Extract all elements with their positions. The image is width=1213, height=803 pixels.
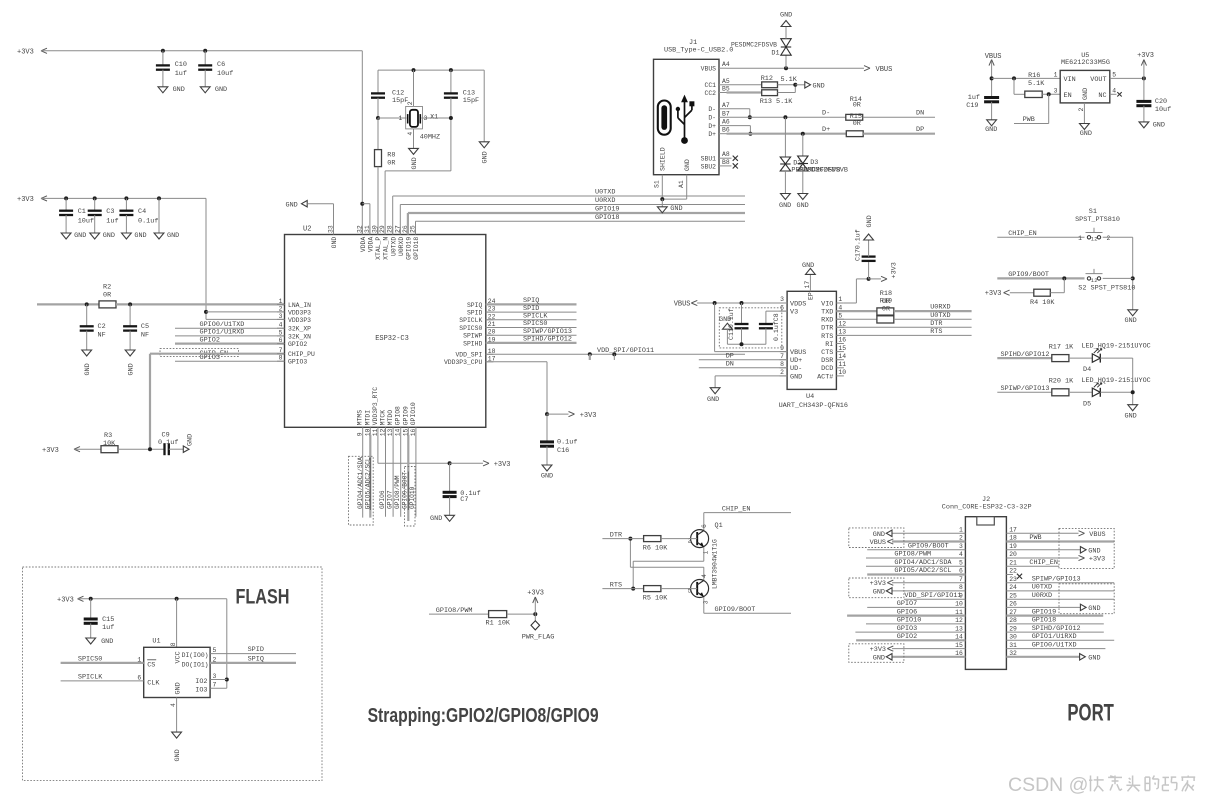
svg-text:SPICLK: SPICLK bbox=[78, 674, 103, 682]
svg-text:32: 32 bbox=[356, 225, 363, 233]
svg-text:+3V3: +3V3 bbox=[57, 597, 74, 605]
svg-text:21: 21 bbox=[1009, 559, 1017, 566]
svg-text:Strapping:GPIO2/GPIO8/GPIO9: Strapping:GPIO2/GPIO8/GPIO9 bbox=[368, 705, 599, 727]
svg-text:GPIO9/BOOT: GPIO9/BOOT bbox=[908, 543, 949, 551]
svg-text:C6: C6 bbox=[217, 61, 225, 69]
svg-text:+3V3: +3V3 bbox=[870, 646, 886, 654]
svg-text:VDD_SPI/GPIO11: VDD_SPI/GPIO11 bbox=[904, 592, 961, 600]
svg-text:U4: U4 bbox=[806, 393, 814, 401]
svg-text:10: 10 bbox=[838, 369, 846, 376]
svg-text:SPIWP/GPIO13: SPIWP/GPIO13 bbox=[1032, 575, 1081, 583]
svg-text:1uf: 1uf bbox=[106, 218, 118, 226]
svg-text:1uf: 1uf bbox=[968, 94, 980, 102]
svg-text:GPIO7: GPIO7 bbox=[386, 490, 393, 509]
svg-text:31: 31 bbox=[364, 225, 371, 233]
svg-text:VBUS: VBUS bbox=[876, 66, 893, 74]
svg-text:VDDA: VDDA bbox=[368, 237, 375, 253]
svg-text:3: 3 bbox=[424, 115, 428, 122]
svg-text:23: 23 bbox=[1009, 576, 1017, 583]
svg-text:C10: C10 bbox=[175, 61, 187, 69]
svg-text:13: 13 bbox=[838, 329, 846, 336]
svg-text:30: 30 bbox=[1009, 634, 1017, 641]
svg-text:+3V3: +3V3 bbox=[870, 580, 886, 588]
svg-text:33: 33 bbox=[328, 225, 335, 233]
svg-text:U2: U2 bbox=[303, 226, 311, 234]
svg-text:CHIP_EN: CHIP_EN bbox=[1029, 559, 1058, 567]
svg-text:Conn_CORE-ESP32-C3-32P: Conn_CORE-ESP32-C3-32P bbox=[942, 504, 1032, 512]
svg-text:+3V3: +3V3 bbox=[17, 196, 34, 204]
svg-text:GPIO9/BOOT: GPIO9/BOOT bbox=[715, 606, 756, 614]
svg-text:SPIHD/GPIO12: SPIHD/GPIO12 bbox=[523, 336, 572, 344]
svg-text:GND: GND bbox=[1088, 605, 1100, 613]
svg-text:20: 20 bbox=[1009, 551, 1017, 558]
svg-text:GND: GND bbox=[780, 12, 792, 20]
svg-text:LNA_IN: LNA_IN bbox=[288, 302, 311, 309]
svg-text:B7: B7 bbox=[722, 110, 730, 117]
svg-text:4: 4 bbox=[1112, 87, 1116, 94]
svg-text:RXD: RXD bbox=[821, 317, 833, 325]
svg-text:17: 17 bbox=[804, 281, 811, 289]
svg-text:GND: GND bbox=[790, 373, 802, 381]
svg-text:NF: NF bbox=[98, 331, 106, 339]
svg-text:GND: GND bbox=[813, 82, 825, 90]
svg-text:0R: 0R bbox=[882, 305, 890, 313]
svg-text:10uf: 10uf bbox=[78, 218, 94, 226]
svg-text:14: 14 bbox=[838, 353, 846, 360]
svg-text:GND: GND bbox=[174, 749, 182, 761]
svg-text:GND: GND bbox=[1082, 88, 1090, 100]
svg-text:15: 15 bbox=[838, 345, 846, 352]
svg-text:GND: GND bbox=[873, 588, 885, 596]
svg-text:25: 25 bbox=[1009, 592, 1017, 599]
svg-text:GND: GND bbox=[873, 531, 885, 539]
svg-text:GND: GND bbox=[1125, 413, 1137, 421]
svg-text:R16: R16 bbox=[1028, 72, 1040, 80]
svg-text:19: 19 bbox=[1009, 543, 1017, 550]
svg-text:R12: R12 bbox=[761, 75, 773, 83]
svg-text:SPIHD/GPIO12: SPIHD/GPIO12 bbox=[1032, 625, 1081, 633]
svg-text:U0TXD: U0TXD bbox=[595, 189, 615, 197]
svg-text:10uf: 10uf bbox=[217, 70, 233, 78]
svg-text:GND: GND bbox=[797, 202, 809, 210]
svg-text:C19: C19 bbox=[966, 102, 978, 110]
svg-text:C2: C2 bbox=[98, 323, 106, 331]
svg-text:C16: C16 bbox=[557, 447, 569, 455]
svg-text:DI(IO0): DI(IO0) bbox=[182, 652, 209, 659]
svg-text:12: 12 bbox=[955, 617, 963, 624]
svg-text:VBUS: VBUS bbox=[674, 301, 691, 309]
svg-text:R5 10K: R5 10K bbox=[643, 594, 668, 602]
svg-text:IO3: IO3 bbox=[195, 687, 207, 695]
svg-text:VDD3P3_RTC: VDD3P3_RTC bbox=[372, 387, 379, 426]
svg-text:SPIQ: SPIQ bbox=[467, 302, 483, 309]
svg-text:UD-: UD- bbox=[790, 365, 802, 373]
svg-text:PWB: PWB bbox=[1023, 116, 1035, 124]
svg-text:GND: GND bbox=[128, 363, 136, 375]
svg-text:5.1K: 5.1K bbox=[1028, 80, 1045, 88]
svg-text:D-: D- bbox=[708, 115, 716, 122]
svg-text:26: 26 bbox=[1009, 601, 1017, 608]
svg-text:7: 7 bbox=[780, 353, 784, 360]
svg-text:20: 20 bbox=[488, 329, 496, 336]
svg-text:GPIO0/U1TXD: GPIO0/U1TXD bbox=[1032, 641, 1077, 649]
svg-text:3: 3 bbox=[959, 543, 963, 550]
svg-text:+3V3: +3V3 bbox=[17, 48, 34, 56]
svg-text:R3: R3 bbox=[104, 432, 112, 440]
svg-text:GPIO1/U1RXD: GPIO1/U1RXD bbox=[1032, 633, 1077, 641]
svg-text:0R: 0R bbox=[853, 102, 861, 110]
svg-text:VBUS: VBUS bbox=[701, 66, 717, 73]
svg-text:+3V3: +3V3 bbox=[42, 447, 59, 455]
svg-text:NC: NC bbox=[1098, 92, 1106, 100]
svg-text:GND: GND bbox=[187, 434, 195, 446]
svg-text:11: 11 bbox=[838, 361, 846, 368]
svg-text:4: 4 bbox=[279, 322, 283, 329]
svg-text:DTR: DTR bbox=[930, 320, 942, 328]
svg-text:GND: GND bbox=[286, 201, 298, 209]
svg-text:GND: GND bbox=[74, 232, 86, 240]
svg-text:4: 4 bbox=[701, 574, 708, 578]
svg-text:EN: EN bbox=[1064, 92, 1072, 100]
svg-text:1: 1 bbox=[137, 656, 141, 663]
svg-text:1: 1 bbox=[279, 298, 283, 305]
svg-text:U0RXD: U0RXD bbox=[1032, 592, 1052, 600]
svg-text:1: 1 bbox=[959, 527, 963, 534]
svg-text:ESP32-C3: ESP32-C3 bbox=[375, 335, 409, 343]
svg-text:R1 10K: R1 10K bbox=[486, 620, 511, 628]
svg-text:GPIO5/ADC2/SCL: GPIO5/ADC2/SCL bbox=[364, 457, 371, 509]
svg-text:23: 23 bbox=[488, 306, 496, 313]
svg-text:GND: GND bbox=[134, 232, 146, 240]
svg-text:18: 18 bbox=[488, 348, 496, 355]
svg-text:GPIO2: GPIO2 bbox=[200, 336, 220, 344]
svg-text:2: 2 bbox=[279, 305, 283, 312]
svg-text:VDDS: VDDS bbox=[790, 300, 806, 308]
svg-text:GND: GND bbox=[103, 232, 115, 240]
svg-text:LMBT3904W1T1G: LMBT3904W1T1G bbox=[712, 539, 719, 589]
svg-text:VBUS: VBUS bbox=[870, 539, 886, 547]
svg-text:GND: GND bbox=[670, 205, 682, 213]
svg-text:GND: GND bbox=[331, 237, 338, 249]
svg-text:X1: X1 bbox=[430, 114, 438, 122]
svg-text:R4 10K: R4 10K bbox=[1030, 299, 1055, 307]
svg-text:VBUS: VBUS bbox=[1089, 531, 1105, 539]
svg-text:GND: GND bbox=[1080, 130, 1092, 138]
svg-text:C3: C3 bbox=[106, 208, 114, 216]
svg-text:0.1uf: 0.1uf bbox=[158, 439, 178, 447]
svg-text:C170.1uf: C170.1uf bbox=[855, 229, 862, 261]
svg-text:4: 4 bbox=[959, 551, 963, 558]
svg-text:GND: GND bbox=[684, 159, 691, 171]
svg-text:GPIO19: GPIO19 bbox=[406, 237, 413, 260]
svg-text:VOUT: VOUT bbox=[1090, 76, 1106, 84]
svg-text:LED_HQ19-2151UYOC: LED_HQ19-2151UYOC bbox=[1081, 377, 1150, 385]
svg-text:DN: DN bbox=[726, 361, 734, 369]
svg-text:24: 24 bbox=[1009, 584, 1017, 591]
svg-text:GPIO7: GPIO7 bbox=[897, 600, 917, 608]
svg-text:GND: GND bbox=[1125, 317, 1137, 325]
svg-text:C5: C5 bbox=[141, 323, 149, 331]
svg-text:S2 SPST_PTS810: S2 SPST_PTS810 bbox=[1078, 284, 1135, 292]
svg-text:D-: D- bbox=[822, 110, 830, 118]
svg-text:21: 21 bbox=[488, 321, 496, 328]
svg-text:22: 22 bbox=[488, 313, 496, 320]
svg-text:15pF: 15pF bbox=[392, 97, 408, 105]
svg-text:GPIO10: GPIO10 bbox=[897, 617, 921, 625]
svg-text:3: 3 bbox=[213, 673, 217, 680]
svg-text:VIN: VIN bbox=[1064, 76, 1076, 84]
svg-text:A4: A4 bbox=[722, 61, 730, 68]
svg-text:GPIO9/BOOT: GPIO9/BOOT bbox=[402, 472, 409, 509]
svg-text:UD+: UD+ bbox=[790, 357, 802, 365]
svg-text:GND: GND bbox=[1088, 547, 1100, 555]
svg-text:PESDMC2FDSVB: PESDMC2FDSVB bbox=[799, 167, 848, 175]
svg-text:1uf: 1uf bbox=[175, 70, 187, 78]
svg-text:U0RXD: U0RXD bbox=[595, 197, 615, 205]
svg-text:VDD_SPI: VDD_SPI bbox=[455, 352, 482, 359]
svg-text:A5: A5 bbox=[722, 78, 730, 85]
svg-text:0R: 0R bbox=[103, 291, 111, 299]
svg-text:8: 8 bbox=[279, 355, 283, 362]
svg-text:GND: GND bbox=[1153, 122, 1165, 130]
svg-text:2: 2 bbox=[780, 369, 784, 376]
svg-text:3: 3 bbox=[279, 313, 283, 320]
svg-text:GPIO4/ADC1/SDA: GPIO4/ADC1/SDA bbox=[357, 457, 364, 509]
svg-text:GND: GND bbox=[541, 473, 553, 481]
svg-text:MTMS: MTMS bbox=[357, 410, 364, 426]
svg-text:C15: C15 bbox=[102, 616, 114, 624]
svg-text:MTDO: MTDO bbox=[387, 410, 394, 426]
svg-text:USB_Type-C_USB2.0: USB_Type-C_USB2.0 bbox=[664, 47, 733, 55]
svg-text:CS: CS bbox=[147, 662, 155, 670]
svg-text:GND: GND bbox=[1088, 654, 1100, 662]
svg-text:30: 30 bbox=[372, 225, 379, 233]
svg-text:GND: GND bbox=[84, 363, 92, 375]
svg-text:C1: C1 bbox=[78, 208, 86, 216]
svg-text:D5: D5 bbox=[1083, 400, 1091, 408]
svg-text:GND: GND bbox=[167, 232, 179, 240]
svg-text:GND: GND bbox=[215, 86, 227, 94]
svg-text:GPIO4/ADC1/SDA: GPIO4/ADC1/SDA bbox=[894, 559, 952, 567]
svg-text:+3V3: +3V3 bbox=[985, 290, 1002, 298]
svg-text:R8: R8 bbox=[387, 151, 395, 159]
svg-text:R13 5.1K: R13 5.1K bbox=[760, 98, 794, 106]
svg-text:Q1: Q1 bbox=[715, 522, 723, 530]
svg-text:3: 3 bbox=[780, 296, 784, 303]
svg-text:VDDA: VDDA bbox=[360, 237, 367, 253]
svg-text:DO(IO1): DO(IO1) bbox=[182, 661, 209, 668]
svg-text:17: 17 bbox=[488, 355, 496, 362]
svg-text:VBUS: VBUS bbox=[790, 349, 806, 357]
svg-text:A6: A6 bbox=[722, 119, 730, 126]
svg-text:GND: GND bbox=[173, 86, 185, 94]
svg-text:31: 31 bbox=[1009, 642, 1017, 649]
svg-text:7: 7 bbox=[279, 347, 283, 354]
svg-text:SPID: SPID bbox=[467, 310, 483, 317]
svg-text:2: 2 bbox=[1107, 235, 1111, 242]
svg-text:SPST_PTS810: SPST_PTS810 bbox=[1075, 216, 1120, 224]
svg-text:GPIO9: GPIO9 bbox=[402, 406, 409, 425]
svg-text:DCD: DCD bbox=[821, 365, 833, 373]
svg-text:0R: 0R bbox=[853, 120, 861, 128]
svg-text:U1: U1 bbox=[152, 638, 160, 646]
svg-text:U0RXD: U0RXD bbox=[398, 237, 405, 256]
svg-text:1: 1 bbox=[838, 296, 842, 303]
svg-text:13: 13 bbox=[955, 625, 963, 632]
svg-text:22: 22 bbox=[1009, 568, 1017, 575]
svg-text:VIO: VIO bbox=[821, 300, 833, 308]
svg-text:15: 15 bbox=[955, 642, 963, 649]
svg-text:VDD3P3: VDD3P3 bbox=[288, 317, 311, 324]
svg-text:DP: DP bbox=[726, 353, 734, 361]
svg-text:DP: DP bbox=[916, 126, 924, 134]
svg-text:XTAL_N: XTAL_N bbox=[383, 237, 390, 260]
svg-text:ACT#: ACT# bbox=[817, 373, 833, 381]
svg-text:U0TXD: U0TXD bbox=[930, 312, 950, 320]
svg-text:D+: D+ bbox=[708, 123, 716, 130]
svg-text:PWB: PWB bbox=[1029, 534, 1041, 542]
svg-text:0R: 0R bbox=[387, 160, 395, 168]
svg-text:+3V3: +3V3 bbox=[527, 589, 544, 597]
svg-text:TXD: TXD bbox=[821, 309, 833, 317]
svg-text:1: 1 bbox=[399, 115, 403, 122]
svg-text:C110.1uf: C110.1uf bbox=[728, 308, 735, 340]
svg-text:U0TXD: U0TXD bbox=[1032, 584, 1052, 592]
svg-text:+3V3: +3V3 bbox=[1089, 556, 1105, 564]
svg-text:GND: GND bbox=[175, 682, 183, 694]
svg-text:GPIO18: GPIO18 bbox=[1032, 617, 1056, 625]
svg-text:GND: GND bbox=[866, 215, 874, 227]
svg-text:GND: GND bbox=[411, 157, 419, 169]
svg-text:4: 4 bbox=[170, 703, 177, 707]
svg-text:PORT: PORT bbox=[1067, 700, 1114, 727]
svg-text:GPIO8/PWM: GPIO8/PWM bbox=[394, 475, 401, 509]
svg-text:15pF: 15pF bbox=[463, 97, 479, 105]
svg-text:U0RXD: U0RXD bbox=[930, 304, 950, 312]
svg-text:D-: D- bbox=[708, 106, 716, 113]
svg-text:29: 29 bbox=[1009, 625, 1017, 632]
svg-text:RTS: RTS bbox=[930, 328, 942, 336]
svg-text:7: 7 bbox=[213, 682, 217, 689]
svg-text:GND: GND bbox=[101, 638, 113, 646]
svg-text:6: 6 bbox=[279, 337, 283, 344]
svg-text:5.1K: 5.1K bbox=[781, 76, 798, 84]
svg-text:R2: R2 bbox=[103, 283, 111, 291]
svg-text:GPIO5/ADC2/SCL: GPIO5/ADC2/SCL bbox=[894, 567, 951, 575]
svg-text:B8: B8 bbox=[722, 159, 730, 166]
svg-text:VDD3P3: VDD3P3 bbox=[288, 309, 311, 316]
svg-text:GPIO8/PWM: GPIO8/PWM bbox=[894, 551, 931, 559]
svg-text:A8: A8 bbox=[722, 151, 730, 158]
svg-text:EP: EP bbox=[808, 292, 815, 300]
svg-text:+3V3: +3V3 bbox=[580, 412, 597, 420]
svg-text:C4: C4 bbox=[138, 208, 146, 216]
svg-text:V3: V3 bbox=[790, 309, 798, 317]
svg-text:LED_HQ19-2151UYOC: LED_HQ19-2151UYOC bbox=[1081, 343, 1150, 351]
svg-text:PWR_FLAG: PWR_FLAG bbox=[522, 634, 555, 642]
svg-text:VDD_SPI/GPIO11: VDD_SPI/GPIO11 bbox=[597, 347, 654, 355]
svg-text:10uf: 10uf bbox=[1155, 106, 1171, 114]
svg-text:PESDMC2FDSVB: PESDMC2FDSVB bbox=[731, 42, 777, 49]
svg-text:CTS: CTS bbox=[821, 349, 833, 357]
svg-text:GND: GND bbox=[779, 202, 791, 210]
svg-text:2: 2 bbox=[1094, 237, 1097, 243]
svg-text:+3V3: +3V3 bbox=[891, 262, 899, 278]
svg-text:GPIO6: GPIO6 bbox=[897, 608, 917, 616]
svg-text:MTDI: MTDI bbox=[364, 410, 371, 426]
svg-text:GPIO6: GPIO6 bbox=[379, 490, 386, 509]
svg-text:CHIP_PU: CHIP_PU bbox=[288, 351, 315, 358]
svg-text:SPICLK: SPICLK bbox=[459, 317, 482, 324]
svg-text:SBU2: SBU2 bbox=[701, 163, 717, 170]
svg-text:0.1uf: 0.1uf bbox=[138, 218, 158, 226]
svg-text:IO2: IO2 bbox=[195, 678, 207, 686]
svg-text:GPIO10: GPIO10 bbox=[410, 402, 417, 425]
svg-text:VDD3P3_CPU: VDD3P3_CPU bbox=[444, 359, 483, 366]
svg-text:8: 8 bbox=[959, 584, 963, 591]
svg-text:GPIO18: GPIO18 bbox=[413, 237, 420, 260]
svg-text:A1: A1 bbox=[678, 180, 685, 188]
svg-text:D1: D1 bbox=[771, 50, 779, 58]
svg-text:6: 6 bbox=[701, 524, 708, 528]
svg-text:R17 1K: R17 1K bbox=[1049, 344, 1074, 352]
svg-text:FLASH: FLASH bbox=[236, 586, 290, 609]
svg-text:0.1ufC8: 0.1ufC8 bbox=[773, 313, 780, 341]
svg-text:D+: D+ bbox=[822, 126, 830, 134]
svg-text:0.1uf: 0.1uf bbox=[557, 439, 577, 447]
svg-text:GND: GND bbox=[482, 151, 490, 163]
svg-text:17: 17 bbox=[1009, 527, 1017, 534]
svg-text:SPID: SPID bbox=[248, 646, 264, 654]
svg-text:R6 10K: R6 10K bbox=[643, 544, 668, 552]
svg-text:C7: C7 bbox=[460, 496, 468, 504]
svg-text:GND: GND bbox=[873, 654, 885, 662]
svg-text:CSDN @: CSDN @ bbox=[1008, 774, 1088, 796]
svg-text:32K_XP: 32K_XP bbox=[288, 326, 311, 333]
svg-text:XTAL_P: XTAL_P bbox=[375, 237, 382, 260]
svg-text:8: 8 bbox=[170, 642, 177, 646]
svg-text:CC1: CC1 bbox=[704, 82, 716, 89]
svg-text:SHIELD: SHIELD bbox=[660, 147, 667, 171]
svg-text:SPIQ: SPIQ bbox=[248, 655, 264, 663]
svg-text:16: 16 bbox=[838, 337, 846, 344]
svg-text:R20 1K: R20 1K bbox=[1049, 378, 1074, 386]
svg-text:28: 28 bbox=[1009, 617, 1017, 624]
svg-text:GPIO8: GPIO8 bbox=[395, 406, 402, 425]
svg-text:GPIO2: GPIO2 bbox=[288, 341, 307, 348]
svg-text:SBU1: SBU1 bbox=[701, 156, 717, 163]
svg-text:1: 1 bbox=[1078, 235, 1082, 242]
svg-text:GND: GND bbox=[430, 515, 442, 523]
svg-text:C20: C20 bbox=[1155, 98, 1167, 106]
svg-text:D+: D+ bbox=[708, 131, 716, 138]
svg-text:3: 3 bbox=[1054, 87, 1058, 94]
svg-text:RI: RI bbox=[825, 341, 833, 349]
svg-text:SPIHD: SPIHD bbox=[463, 340, 482, 347]
svg-text:1: 1 bbox=[1054, 71, 1058, 78]
svg-text:GND: GND bbox=[985, 126, 997, 134]
svg-text:GPIO3: GPIO3 bbox=[897, 625, 917, 633]
svg-text:GND: GND bbox=[707, 396, 719, 404]
svg-text:GPIO19: GPIO19 bbox=[595, 206, 619, 214]
svg-text:UART_CH343P-QFN16: UART_CH343P-QFN16 bbox=[779, 402, 848, 410]
svg-text:12: 12 bbox=[838, 321, 846, 328]
svg-text:S1: S1 bbox=[654, 180, 661, 188]
svg-text:ME6212C33M5G: ME6212C33M5G bbox=[1061, 59, 1110, 67]
svg-text:DSR: DSR bbox=[821, 357, 833, 365]
svg-text:D4: D4 bbox=[1083, 366, 1091, 374]
svg-text:CLK: CLK bbox=[147, 680, 160, 688]
